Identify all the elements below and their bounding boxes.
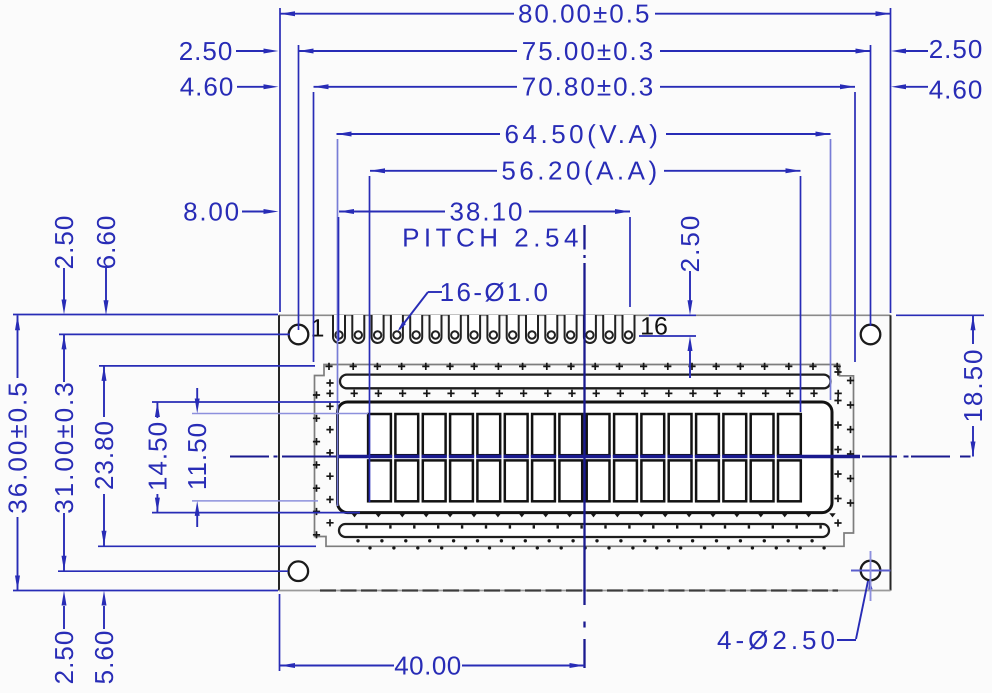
mounting hole bottom-left (289, 561, 309, 581)
extension line PCB right top (890, 8, 892, 313)
extension line hole right (870, 45, 872, 326)
pin pad 3 (372, 315, 384, 343)
svg-text:2.50: 2.50 (49, 630, 79, 685)
dim 75.00+-0.3 (299, 50, 518, 52)
extension line hole left (298, 45, 300, 330)
cell column 5 lower (477, 460, 500, 501)
svg-text:23.80: 23.80 (89, 420, 119, 490)
cell column 7 lower (532, 460, 555, 501)
cell column 7 upper (532, 414, 555, 455)
svg-text:18.50: 18.50 (958, 347, 988, 422)
extension line bezel top left (99, 365, 315, 367)
bezel + marks second row (326, 390, 333, 397)
extension line cells right (800, 176, 802, 412)
cell column 14 lower (723, 460, 746, 501)
pin pad 5 (410, 315, 422, 343)
svg-text:64.50(V.A): 64.50(V.A) (505, 119, 662, 149)
cell column 13 upper (696, 414, 719, 455)
extension line pcb edge right of pins (649, 314, 696, 316)
cell column 1 lower (368, 460, 391, 501)
cell column 2 lower (395, 460, 418, 501)
extension line cells bottom left (light) (192, 500, 318, 502)
crosshair bottom-right hole horizontal (851, 570, 891, 572)
cell column 16 lower (778, 460, 801, 501)
extension line pin16 (629, 217, 631, 307)
dim 56.20 (A.A) (370, 170, 497, 172)
mounting hole top-left (289, 325, 309, 345)
svg-text:80.00±0.5: 80.00±0.5 (518, 0, 651, 29)
PCB left edge (278, 315, 280, 590)
cell column 10 lower (614, 460, 637, 501)
extension line hole centers top (59, 333, 290, 335)
pin hole 13 (567, 331, 574, 338)
cell column 9 upper (587, 414, 610, 455)
pin pad 1 (333, 315, 345, 343)
svg-text:1: 1 (311, 315, 325, 343)
svg-text:4.60: 4.60 (180, 72, 235, 102)
extension line pin1 (338, 217, 340, 341)
pin hole 14 (586, 331, 593, 338)
horizontal center line (dash-dot) (230, 456, 269, 458)
pin pad 8 (468, 315, 480, 343)
extension line window top left (152, 401, 340, 403)
extension line hole centers bottom (58, 570, 288, 572)
dots row on bezel bottom edge (368, 546, 371, 549)
pin pad 4 (391, 315, 403, 343)
tick dots on bottom slot top edge (365, 525, 367, 528)
pin hole 10 (509, 331, 516, 338)
cell column 15 upper (751, 414, 774, 455)
cell column 11 lower (641, 460, 664, 501)
pin hole 5 (413, 331, 420, 338)
svg-text:2.50: 2.50 (49, 215, 79, 270)
cell column 10 upper (614, 414, 637, 455)
svg-text:75.00±0.3: 75.00±0.3 (522, 36, 655, 66)
cell column 12 upper (669, 414, 692, 455)
backlight hidden dashed line (320, 589, 838, 591)
svg-text:11.50: 11.50 (182, 422, 212, 490)
PCB right edge (890, 315, 892, 590)
svg-text:6.60: 6.60 (91, 215, 121, 270)
extension line PCB bottom left (13, 590, 278, 592)
pin hole 8 (470, 331, 477, 338)
pin pad 12 (545, 315, 557, 343)
pin hole 4 (393, 331, 400, 338)
bezel + marks right columns (834, 368, 841, 375)
crosshair bottom-right hole vertical (870, 551, 872, 601)
pin pad 10 (507, 315, 519, 343)
dots row below bottom slot (356, 539, 359, 542)
extension line PCB left bottom (279, 594, 281, 671)
cell column 3 lower (423, 460, 446, 501)
svg-text:56.20(A.A): 56.20(A.A) (501, 156, 660, 186)
bezel teeth marks below window (351, 513, 357, 517)
svg-text:40.00: 40.00 (394, 651, 462, 681)
pin hole 7 (451, 331, 458, 338)
cell column 8 upper (559, 414, 582, 455)
cell column 11 upper (641, 414, 664, 455)
extension line cells left (369, 176, 371, 502)
svg-text:2.50: 2.50 (929, 34, 984, 64)
dim 80.00+-0.5 (280, 13, 514, 15)
pin pad 2 (352, 315, 364, 343)
cell column 15 lower (751, 460, 774, 501)
cell column 6 upper (505, 414, 528, 455)
svg-text:14.50: 14.50 (142, 421, 172, 491)
cell column 5 upper (477, 414, 500, 455)
extension line bezel left top (313, 92, 315, 362)
dim 70.80+-0.3 (314, 86, 518, 88)
bottom zebra connector slot (339, 524, 829, 537)
extension line bezel bottom left (98, 545, 316, 547)
pin pad 13 (565, 315, 577, 343)
svg-text:PITCH 2.54: PITCH 2.54 (402, 223, 583, 253)
pin hole 2 (355, 331, 362, 338)
cell column 4 lower (450, 460, 473, 501)
svg-text:36.00±0.5: 36.00±0.5 (3, 380, 33, 513)
pin pad 16 (623, 315, 635, 343)
pin pad 14 (584, 315, 596, 343)
cell column 12 lower (669, 460, 692, 501)
svg-text:70.80±0.3: 70.80±0.3 (522, 72, 655, 102)
extension line bezel right top (854, 92, 856, 362)
pin pad 9 (487, 315, 499, 343)
extension line window bottom left (152, 512, 360, 514)
cell column 9 lower (587, 460, 610, 501)
cell column 6 lower (505, 460, 528, 501)
svg-text:8.00: 8.00 (183, 196, 241, 226)
cell column 8 lower (559, 460, 582, 501)
display window (V.A) rounded rect (338, 402, 833, 513)
cell column 4 upper (450, 414, 473, 455)
pin hole 12 (548, 331, 555, 338)
PCB top edge (279, 314, 891, 316)
pin pad 11 (526, 315, 538, 343)
extension line PCB top left (13, 314, 278, 316)
extension line window left (337, 139, 339, 506)
svg-text:4-Ø2.50: 4-Ø2.50 (717, 625, 839, 655)
cell column 14 upper (723, 414, 746, 455)
svg-text:2.50: 2.50 (179, 36, 234, 66)
pin hole 16 (625, 331, 632, 338)
metal bezel outline (315, 365, 854, 547)
bezel + marks top row on edge (325, 363, 332, 370)
extension line pin centers (639, 335, 696, 337)
svg-text:2.50: 2.50 (675, 214, 705, 273)
dim 38.10 (339, 211, 445, 213)
svg-text:4.60: 4.60 (929, 75, 984, 105)
vertical center line (dash-dot) (583, 225, 585, 250)
svg-text:31.00±0.3: 31.00±0.3 (49, 380, 79, 513)
extension line PCB left top (279, 8, 281, 312)
pin hole 9 (490, 331, 497, 338)
pin pad 6 (430, 315, 442, 343)
svg-text:5.60: 5.60 (89, 630, 119, 685)
pin hole 11 (528, 331, 535, 338)
mounting hole bottom-right (861, 561, 881, 581)
cell column 16 upper (778, 414, 801, 455)
pin pad 7 (449, 315, 461, 343)
PCB bottom edge (279, 590, 891, 592)
top zebra connector slot (340, 375, 831, 389)
extension line window right (830, 139, 832, 400)
pin hole 3 (374, 331, 381, 338)
pin hole 6 (432, 331, 439, 338)
mounting hole top-right (861, 325, 881, 345)
pin hole 1 (335, 331, 342, 338)
cell column 2 upper (395, 414, 418, 455)
bezel + marks left columns (313, 391, 320, 398)
extension line cells top left (light) (192, 413, 368, 415)
pin hole 15 (606, 331, 613, 338)
cell column 3 upper (423, 414, 446, 455)
extension line PCB top right (896, 314, 984, 316)
cell column 13 lower (696, 460, 719, 501)
pin pad 15 (603, 315, 615, 343)
cell column 1 upper (368, 414, 391, 455)
dim 64.50 (V.A) (337, 133, 501, 135)
svg-text:16-Ø1.0: 16-Ø1.0 (440, 277, 551, 307)
